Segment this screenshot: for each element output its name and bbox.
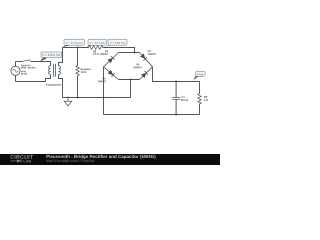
wire ground rail	[63, 97, 131, 99]
ground symbol	[64, 98, 71, 106]
label diode D2 name	[105, 50, 108, 52]
label resistor R8 value	[93, 53, 99, 55]
resistor R6 top lead	[199, 82, 201, 94]
footer logo LAB	[24, 160, 31, 162]
wire bridge left vertex down	[103, 67, 105, 115]
node dot resistor-ground junction	[77, 97, 79, 99]
label diode D3 value	[98, 80, 106, 82]
diode D2 arrow	[107, 58, 112, 63]
label diode D4 value	[133, 66, 141, 68]
label capacitor C1 name	[182, 96, 185, 98]
annotation boxC V=6.81	[104, 39, 127, 48]
wire bridge right vertex to Vout rail	[153, 67, 200, 82]
label resistor Resistor value	[81, 71, 86, 73]
label voltage source freq	[21, 73, 27, 75]
node dot ground rail junction	[103, 97, 105, 99]
capacitor C1 bottom lead	[175, 100, 177, 115]
wire output bottom rail	[104, 114, 200, 116]
wire source bottom lead	[15, 75, 17, 81]
transformer T1 core	[54, 64, 56, 77]
label diode D1 value	[148, 53, 156, 55]
wire primary top right of switch	[31, 62, 51, 66]
footer title	[47, 155, 156, 159]
capacitor C1 top lead	[175, 82, 177, 98]
wire bridge bottom vertex to ground rail	[130, 80, 132, 98]
wire secondary bottom lead	[59, 75, 63, 98]
node label Vout	[194, 71, 206, 80]
transformer T1 secondary coil	[59, 66, 61, 75]
label resistor R6 value	[204, 99, 208, 101]
node dot capacitor bottom junction	[175, 114, 177, 116]
label capacitor C1 value	[181, 99, 188, 101]
annotation boxB V=12.1	[85, 39, 106, 49]
wire primary bottom rail	[16, 75, 51, 82]
wire secondary top rail	[63, 47, 89, 49]
label voltage source model	[21, 67, 35, 69]
label voltage source type	[21, 70, 26, 72]
resistor R8 horizontal zigzag	[89, 46, 103, 50]
switch SW terminal dots	[22, 61, 23, 62]
resistor R6 vertical zigzag	[198, 94, 201, 104]
bridge bottom edge wire	[119, 79, 140, 81]
bridge top edge wire	[119, 52, 140, 54]
diode D2 diagonal	[104, 53, 119, 67]
annotation boxA V=12.14	[62, 39, 84, 48]
node dot capacitor top junction	[175, 81, 177, 83]
node dot resistor-rail junction	[77, 47, 79, 49]
footer logo squiggle	[10, 159, 22, 162]
label diode D3 name	[103, 78, 106, 80]
diode D3 arrow	[108, 70, 113, 75]
footer logo CIRCUIT	[10, 155, 33, 159]
footer bar	[0, 154, 220, 165]
voltage source V1 SwAcV1 Wall_Socket	[11, 66, 20, 75]
resistor Resistor 10ohm bottom lead	[77, 76, 79, 98]
label resistor R8 name	[93, 50, 96, 52]
label resistor Resistor name	[81, 68, 91, 70]
resistor R6 bottom lead	[199, 104, 201, 115]
label diode D4 name	[136, 64, 139, 66]
resistor Resistor 10ohm vertical zigzag	[76, 66, 79, 76]
diode D4 arrow	[141, 73, 146, 78]
wire primary top left of switch	[16, 61, 23, 63]
label diode D1 name	[148, 50, 151, 52]
resistor Resistor 10ohm top lead	[77, 48, 79, 66]
wire R8 to bridge top	[103, 48, 135, 53]
node dot ground stub junction	[67, 97, 69, 99]
diode D1 diagonal	[140, 53, 153, 67]
diode D4 diagonal	[140, 67, 153, 80]
label voltage source name	[21, 64, 31, 66]
wire source top lead	[15, 62, 17, 67]
wire secondary top lead	[59, 48, 63, 66]
capacitor C1 plates	[172, 98, 180, 100]
diode D1 arrow	[140, 53, 145, 58]
footer url	[46, 159, 94, 162]
label resistor R6 name	[204, 96, 207, 98]
transformer T1 primary coil	[49, 66, 51, 75]
node dot bridge top junction	[134, 52, 136, 54]
label diode D2 value	[100, 53, 108, 55]
diode D3 diagonal	[104, 67, 119, 80]
node dot bridge bottom junction	[130, 79, 132, 81]
switch SW lever	[22, 60, 31, 61]
label transformer	[46, 84, 61, 86]
annotation box1 V=240	[40, 52, 62, 62]
